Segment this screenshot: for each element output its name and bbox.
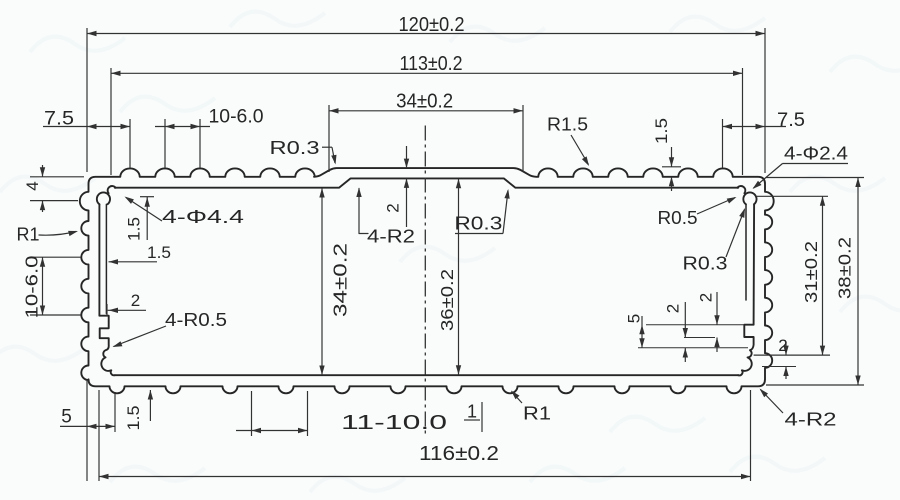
svg-text:116±0.2: 116±0.2	[419, 443, 499, 465]
dimension 113±0.2	[110, 68, 112, 175]
dimension 10-6.0 left fin pitch	[30, 256, 81, 258]
svg-text:113±0.2: 113±0.2	[400, 53, 463, 75]
right wall groove second line	[745, 204, 747, 300]
dimension 2 right slot upper	[716, 292, 718, 325]
svg-text:34±0.2: 34±0.2	[396, 91, 453, 113]
extrusion profile outer outline with cooling-fin bumps	[80, 168, 774, 393]
dimension 116±0.2 bottom width	[98, 390, 100, 481]
svg-text:120±0.2: 120±0.2	[399, 14, 465, 36]
svg-text:4-R2: 4-R2	[367, 227, 415, 247]
svg-text:10-6.0: 10-6.0	[209, 107, 264, 128]
svg-text:1.5: 1.5	[126, 217, 144, 241]
svg-text:R1.5: R1.5	[547, 115, 588, 135]
svg-text:11-10.0: 11-10.0	[341, 412, 447, 434]
svg-text:4: 4	[23, 181, 42, 190]
dimension 36±0.2 inner height center	[458, 179, 460, 375]
vertical dash-dot centerline	[424, 126, 426, 435]
dimension 7.5 left	[129, 119, 131, 168]
right inner wall with slot and bottom-right screw boss	[738, 204, 754, 375]
dimension 34±0.2 top channel width	[328, 105, 330, 172]
inner ceiling line with raised channel	[115, 178, 738, 187]
svg-text:38±0.2: 38±0.2	[835, 237, 855, 299]
svg-text:5: 5	[625, 314, 644, 323]
svg-text:1: 1	[467, 402, 477, 422]
dimension 31±0.2	[757, 195, 828, 197]
dimension 1 bottom	[481, 402, 483, 432]
dimension 7.5 right	[722, 119, 724, 168]
dimension 120±0.2 overall width	[86, 28, 88, 172]
svg-text:31±0.2: 31±0.2	[801, 241, 821, 303]
dimension 5 right slot	[646, 324, 744, 326]
svg-text:R1: R1	[523, 404, 551, 424]
inner floor line	[115, 374, 738, 376]
svg-text:2: 2	[778, 336, 787, 355]
dimension 34±0.2 inner height left	[321, 188, 323, 375]
svg-text:2: 2	[697, 293, 716, 302]
svg-text:R0.5: R0.5	[658, 208, 698, 228]
svg-text:36±0.2: 36±0.2	[437, 269, 457, 331]
svg-text:7.5: 7.5	[44, 109, 74, 130]
svg-text:1.5: 1.5	[147, 243, 171, 262]
svg-text:1.5: 1.5	[124, 406, 143, 431]
svg-text:4-Φ2.4: 4-Φ2.4	[784, 144, 848, 164]
screw boss top-right (4-Phi2.4)	[737, 186, 745, 193]
svg-text:R1: R1	[17, 225, 40, 245]
dimension 2 right wall thickness	[762, 366, 796, 368]
dimension 2 left wall tab	[106, 304, 108, 316]
dimension 10-6.0 top fin pitch	[164, 119, 166, 168]
svg-text:4-R2: 4-R2	[785, 410, 837, 430]
svg-text:4-R0.5: 4-R0.5	[165, 310, 227, 330]
dimension 4 left top	[30, 176, 84, 178]
svg-text:1.5: 1.5	[653, 118, 671, 144]
svg-text:2: 2	[664, 304, 683, 313]
left wall groove second line	[105, 204, 107, 313]
svg-text:R0.3: R0.3	[454, 214, 502, 234]
left inner wall with card-slot zigzag and bottom-left screw boss	[99, 204, 114, 375]
dimension 1.5 top-right fin height	[662, 166, 681, 168]
svg-text:4-Φ4.4: 4-Φ4.4	[162, 207, 244, 227]
svg-text:10-6.0: 10-6.0	[22, 255, 42, 318]
dimension 1.5 left groove width	[109, 261, 158, 263]
dimension 1.5 bottom-left rib height	[149, 390, 151, 421]
dimension 2 right slot lower	[684, 337, 715, 339]
screw boss top-left (4-Phi4.4)	[108, 186, 116, 193]
dimension 38±0.2 overall height	[766, 177, 864, 179]
dimension 1.5 top-left boss offset	[140, 196, 154, 198]
dimension 5 bottom-left	[86, 380, 88, 481]
svg-text:2: 2	[384, 203, 403, 212]
svg-text:R0.3: R0.3	[683, 254, 728, 274]
svg-text:2: 2	[131, 291, 140, 310]
dimension 2 channel wall thickness	[406, 146, 408, 168]
svg-text:5: 5	[61, 407, 72, 428]
svg-text:7.5: 7.5	[777, 110, 805, 131]
dimension 11-10.0 bottom rib pitch	[251, 391, 253, 436]
svg-text:R0.3: R0.3	[270, 138, 320, 158]
svg-text:34±0.2: 34±0.2	[330, 243, 351, 317]
